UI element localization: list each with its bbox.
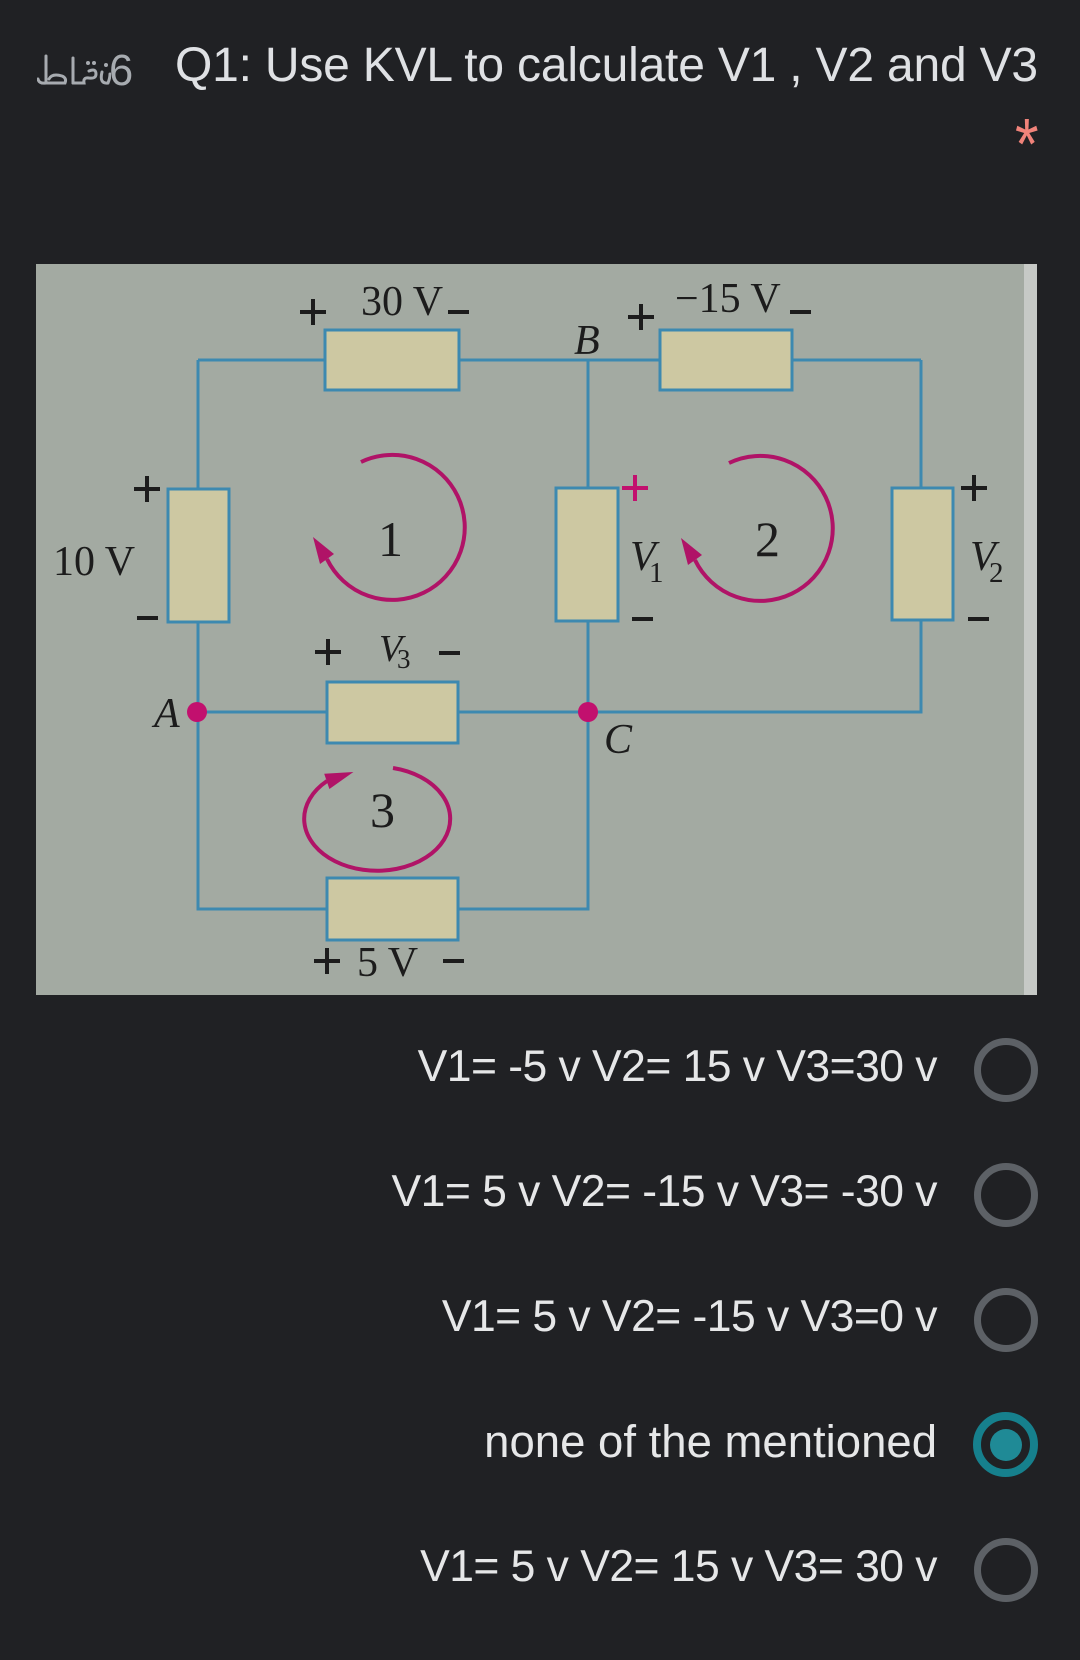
svg-text:−15 V: −15 V	[675, 276, 781, 322]
loop 1 number	[378, 511, 403, 567]
loop arrow 3	[304, 768, 450, 871]
resistor V2 (right)	[892, 488, 953, 620]
label 10 V	[53, 539, 135, 585]
loop arrow 2	[681, 456, 833, 601]
wire top from corner to 30V resistor	[198, 359, 325, 362]
label + of 10 V	[134, 476, 160, 502]
svg-text:3: 3	[397, 644, 411, 674]
resistor -15 V (top right)	[660, 330, 792, 390]
loop 3 number	[370, 782, 395, 838]
resistor V3 (middle horizontal)	[327, 682, 458, 743]
label + of V2	[961, 475, 987, 501]
node A label	[151, 691, 180, 737]
svg-text:2: 2	[989, 557, 1004, 589]
label V1	[630, 534, 664, 589]
wire top-left vertical	[197, 360, 200, 489]
label minus of V2	[968, 617, 989, 621]
node C junction dot	[578, 702, 598, 722]
svg-text:30 V: 30 V	[361, 279, 443, 325]
label minus of 10 V	[137, 616, 158, 620]
wire -15V resistor to top-right corner	[792, 359, 921, 362]
loop 2 number	[755, 511, 780, 567]
svg-text:C: C	[604, 717, 633, 763]
node B label	[574, 318, 600, 364]
label V2	[970, 534, 1004, 589]
wire V3 resistor to node C	[458, 711, 588, 714]
resistor V1 (middle)	[556, 488, 618, 621]
svg-text:A: A	[151, 691, 180, 737]
label + of -15 V	[628, 304, 654, 330]
loop arrow 1	[313, 455, 465, 600]
label minus of 30 V	[448, 310, 469, 314]
svg-text:1: 1	[378, 511, 403, 567]
label V3	[379, 628, 411, 674]
label 5 V	[357, 940, 418, 986]
svg-text:5 V: 5 V	[357, 940, 418, 986]
source 10 V (left)	[168, 489, 229, 622]
label minus of -15 V	[790, 310, 811, 314]
label minus of V3	[439, 651, 460, 655]
svg-text:10 V: 10 V	[53, 539, 135, 585]
wire top-right vertical down to V2	[920, 360, 923, 488]
wire node A to V3 resistor	[198, 711, 327, 714]
svg-text:1: 1	[649, 557, 664, 589]
wire node A down to bottom loop	[198, 712, 327, 909]
label + of 30 V	[300, 299, 326, 325]
label + of 5 V	[314, 948, 340, 974]
node C label	[604, 717, 633, 763]
label minus of 5 V	[443, 959, 464, 963]
svg-text:2: 2	[755, 511, 780, 567]
wire 10V source bottom to node A	[197, 622, 200, 712]
resistor 5 V (bottom)	[327, 878, 458, 940]
label + of V1 (magenta)	[622, 475, 648, 501]
wire V1 bottom to node C	[587, 621, 590, 712]
svg-text:B: B	[574, 318, 600, 364]
svg-text:3: 3	[370, 782, 395, 838]
wire 30V resistor to -15V resistor through node B	[459, 359, 660, 362]
resistor 30 V (top left)	[325, 330, 459, 390]
wire 5V resistor to vertical below C	[458, 712, 588, 909]
page edge highlight	[1024, 264, 1037, 995]
label + of V3	[315, 639, 341, 665]
wire node B vertical down to V1	[587, 360, 590, 488]
wire node C right to V2 bottom	[588, 620, 921, 712]
label 30 V	[361, 279, 443, 325]
label minus of V1	[632, 617, 653, 621]
label -15 V	[675, 276, 781, 322]
node A junction dot	[187, 702, 207, 722]
